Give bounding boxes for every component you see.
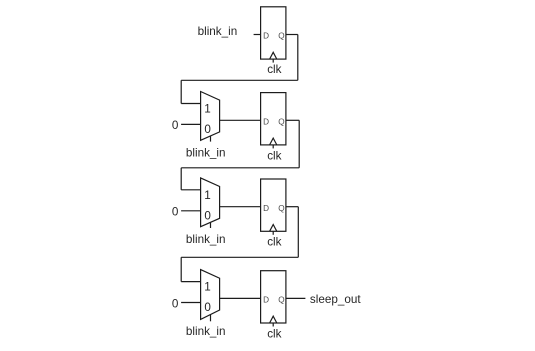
svg-text:0: 0 xyxy=(204,301,211,314)
wire M4 select stub xyxy=(210,314,212,321)
svg-text:blink_in: blink_in xyxy=(186,147,226,160)
clock wedge U1 xyxy=(270,52,277,59)
svg-text:blink_in: blink_in xyxy=(198,25,238,38)
svg-text:1: 1 xyxy=(204,189,211,202)
wire const0 to M4 input 0 xyxy=(181,302,201,304)
wire const0 to M2 input 0 xyxy=(181,123,201,125)
svg-text:blink_in: blink_in xyxy=(186,233,226,246)
wire M2 output to U2 D xyxy=(220,119,261,121)
clock wedge U2 xyxy=(270,138,277,145)
clock wedge U3 xyxy=(270,225,277,232)
svg-text:Q: Q xyxy=(278,296,284,305)
svg-text:Q: Q xyxy=(278,118,284,127)
svg-text:clk: clk xyxy=(267,63,281,76)
svg-text:clk: clk xyxy=(267,327,281,340)
flip-flop U2 body xyxy=(261,93,286,145)
mux M3 body xyxy=(201,178,220,227)
wire U3 Q output xyxy=(286,206,298,208)
wire feedback U3.Q down xyxy=(297,207,299,258)
svg-text:Q: Q xyxy=(278,32,284,41)
svg-text:D: D xyxy=(263,118,269,127)
wire feedback U2.Q left xyxy=(181,167,299,169)
wire into M2 input 1 xyxy=(181,103,200,105)
wire feedback U1.Q down xyxy=(297,35,299,81)
svg-text:sleep_out: sleep_out xyxy=(310,293,361,306)
svg-text:blink_in: blink_in xyxy=(186,325,226,338)
wire feedback down to M3 sel-1 xyxy=(180,168,182,190)
mux M2 body xyxy=(201,92,220,141)
clock wedge U4 xyxy=(270,316,277,323)
svg-text:Q: Q xyxy=(278,204,284,213)
wire feedback U1.Q left xyxy=(181,79,298,81)
wire clk stub U2 xyxy=(272,145,274,149)
wire into M3 input 1 xyxy=(181,189,200,191)
svg-text:0: 0 xyxy=(172,297,179,310)
wire M3 output to U3 D xyxy=(220,206,261,208)
svg-text:D: D xyxy=(263,296,269,305)
svg-text:0: 0 xyxy=(204,123,211,136)
wire U4 Q output to sleep_out xyxy=(286,297,306,299)
wire clk stub U3 xyxy=(272,231,274,235)
svg-text:0: 0 xyxy=(172,119,179,132)
wire blink_in stub to U1 D xyxy=(254,34,261,36)
svg-text:clk: clk xyxy=(267,149,281,162)
svg-text:clk: clk xyxy=(267,236,281,249)
svg-text:0: 0 xyxy=(172,206,179,219)
svg-text:D: D xyxy=(263,32,269,41)
wire clk stub U4 xyxy=(272,323,274,327)
wire feedback U3.Q left xyxy=(181,256,298,258)
wire feedback down to M2 sel-1 xyxy=(180,80,182,103)
mux M4 body xyxy=(201,270,220,320)
wire into M4 input 1 xyxy=(181,281,200,283)
wire M4 output to U4 D xyxy=(220,297,261,299)
wire const0 to M3 input 0 xyxy=(181,210,201,212)
wire clk stub U1 xyxy=(272,59,274,63)
wire feedback down to M4 sel-1 xyxy=(180,257,182,281)
flip-flop U3 body xyxy=(261,179,286,231)
svg-text:1: 1 xyxy=(204,103,211,116)
svg-text:1: 1 xyxy=(204,281,211,294)
flip-flop U1 body xyxy=(261,7,286,59)
svg-text:D: D xyxy=(263,204,269,213)
wire U1 Q output xyxy=(286,34,298,36)
svg-text:0: 0 xyxy=(204,210,211,223)
flip-flop U4 body xyxy=(261,271,286,323)
wire M3 select stub xyxy=(210,222,212,228)
wire U2 Q output xyxy=(286,119,299,121)
wire M2 select stub xyxy=(210,136,212,142)
wire feedback U2.Q down xyxy=(298,120,300,168)
